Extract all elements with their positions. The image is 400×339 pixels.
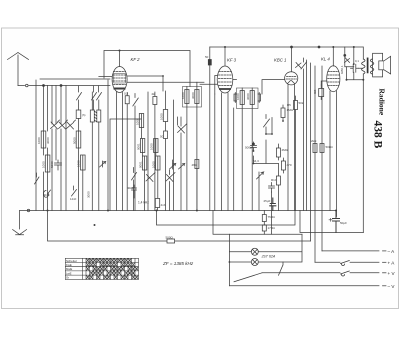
svg-text:1000: 1000 <box>159 113 163 120</box>
wire L1 bottom <box>44 148 48 211</box>
resistor R9 <box>281 158 285 173</box>
tube KBC1 electrodes <box>286 77 297 80</box>
lamp LP2 <box>251 259 258 266</box>
svg-text:ZF = 1385 kHz: ZF = 1385 kHz <box>162 261 194 266</box>
capacitor C4 <box>132 185 137 198</box>
svg-text:40nC: 40nC <box>43 193 50 197</box>
tube KF3 top lead <box>224 47 226 66</box>
wire L4 down <box>78 119 80 132</box>
svg-text:0,3: 0,3 <box>124 92 129 96</box>
svg-text:0001: 0001 <box>138 161 142 168</box>
wire KL4 bottom leads <box>330 91 337 217</box>
svg-text:JST 62A: JST 62A <box>261 255 276 259</box>
node KL4 top <box>344 54 346 56</box>
svg-text:3000: 3000 <box>246 93 250 100</box>
resistor R15 <box>262 225 266 234</box>
T2 coil secondary <box>195 90 199 104</box>
wire input box top <box>40 78 110 80</box>
wire L1 drop <box>43 86 45 132</box>
tube KF2 electrodes <box>113 72 126 85</box>
grid cap arrow KBC1 <box>296 63 302 69</box>
plus sign C10 <box>329 218 332 221</box>
switch S1a <box>77 86 82 110</box>
svg-text:5000: 5000 <box>50 161 54 168</box>
wire lamp1 <box>229 251 251 253</box>
wire bus D <box>300 211 363 233</box>
svg-text:500Ω: 500Ω <box>166 235 174 239</box>
lamp vertical <box>228 234 230 286</box>
coil L2 <box>45 155 50 172</box>
switch S4 <box>133 94 139 211</box>
svg-text:4nb: 4nb <box>161 203 166 207</box>
wire L5 bottom <box>79 148 83 211</box>
svg-text:170Ω: 170Ω <box>268 226 276 230</box>
wire KF2 grid top loop <box>104 51 190 87</box>
tube KF2 cathode <box>115 88 125 90</box>
wire -A row <box>322 250 379 252</box>
grid resistor GB box <box>319 85 324 100</box>
svg-text:1000: 1000 <box>37 137 41 144</box>
T3 coil secondary <box>250 91 254 105</box>
IF transformer T2 box <box>183 87 202 108</box>
tube KF2 grid box <box>114 74 126 84</box>
switch S1b <box>92 86 97 110</box>
lamp LP1 <box>251 248 258 255</box>
speaker horn <box>384 56 391 74</box>
switch S6 <box>264 115 270 135</box>
svg-text:– A: – A <box>388 249 396 254</box>
wire KF2 anode right <box>127 76 163 91</box>
output transformer secondary <box>370 59 373 74</box>
switch S9 <box>341 271 350 276</box>
antenna connector <box>26 84 29 87</box>
wire lamp2 <box>229 261 251 263</box>
svg-text:1000: 1000 <box>152 161 156 168</box>
tube KF3 envelope <box>217 66 233 93</box>
svg-text:50k: 50k <box>299 101 304 105</box>
bus ground <box>20 210 336 212</box>
electrolytic C10 <box>333 211 340 233</box>
switch S2 <box>35 173 40 184</box>
svg-text:R5: R5 <box>287 103 291 107</box>
wire transformer leads <box>362 47 364 80</box>
capacitor C6 <box>251 142 257 151</box>
svg-text:1000: 1000 <box>181 92 185 99</box>
resistor R12 <box>320 144 324 153</box>
switch S7 <box>301 58 307 211</box>
capacitor C7 <box>269 183 275 193</box>
output transformer primary <box>362 59 365 74</box>
coil L1 <box>41 131 46 148</box>
node on bus2 b <box>318 46 320 48</box>
svg-text:0001: 0001 <box>136 143 140 150</box>
capacitor C9 <box>351 64 359 72</box>
coil L4 body <box>76 110 81 119</box>
wire lamp right <box>258 234 302 262</box>
trimmer capacitor T6 <box>166 170 175 211</box>
wire +V row <box>262 272 379 274</box>
resistor R6 <box>281 105 285 121</box>
trimmer capacitor T4 <box>178 117 187 211</box>
switch S10 <box>279 262 284 275</box>
wire osc section <box>52 129 61 211</box>
wire dial lamp feed <box>48 211 311 242</box>
lamp LP1 cross <box>252 249 257 254</box>
bandfilter coils L11 L12 <box>142 156 160 170</box>
svg-text:500μF: 500μF <box>245 146 254 150</box>
wire audio coupling <box>266 118 272 235</box>
svg-text:54,3: 54,3 <box>253 159 259 163</box>
trimmer capacitor T9 <box>100 161 106 167</box>
svg-text:0,1: 0,1 <box>355 59 359 63</box>
svg-text:1000: 1000 <box>150 143 154 150</box>
wire snubber <box>345 47 354 67</box>
svg-text:1000: 1000 <box>77 160 81 167</box>
svg-text:Gr: Gr <box>66 276 69 280</box>
padder capacitor <box>55 160 62 170</box>
node C6 <box>253 143 255 145</box>
node on bus2 <box>291 46 293 48</box>
resistor R2 <box>153 92 157 211</box>
svg-text:KL 4: KL 4 <box>321 57 330 62</box>
svg-text:750Ω: 750Ω <box>268 215 276 219</box>
svg-text:2kΩ: 2kΩ <box>311 139 317 143</box>
speaker driver <box>379 61 384 70</box>
switch S3 <box>72 186 77 196</box>
wire mid drops <box>148 92 178 211</box>
coil L6 <box>81 155 86 170</box>
tube KF2 envelope <box>112 67 127 93</box>
svg-text:GB0,1: GB0,1 <box>340 65 344 74</box>
IF transformer T3 box <box>237 88 259 109</box>
svg-text:1000: 1000 <box>236 93 240 100</box>
T3 side capacitor left <box>234 93 237 103</box>
wire +A row <box>315 261 379 263</box>
svg-text:438 B: 438 B <box>372 121 384 149</box>
trimmer capacitor T7 <box>170 160 176 169</box>
svg-text:KBC 1: KBC 1 <box>274 58 287 63</box>
bandfilter coils L9 L10 <box>140 139 158 153</box>
wire KF3 grid left <box>215 76 217 95</box>
resistor R11 <box>313 144 317 153</box>
coil L5 <box>76 131 81 148</box>
svg-text:(h): (h) <box>82 113 85 117</box>
svg-text:14nF: 14nF <box>70 197 77 201</box>
node A1 <box>43 85 45 87</box>
node A2 <box>60 85 62 87</box>
wire speaker line down <box>362 80 364 233</box>
wire KF2 bottom leads <box>117 92 123 211</box>
wire L2 drop <box>47 86 49 132</box>
frequency table <box>65 258 138 279</box>
trimmer capacitor T8 <box>179 164 185 170</box>
wire sub bus <box>157 211 303 235</box>
tube KL4 electrodes <box>328 72 339 86</box>
wire input rail right <box>107 80 109 211</box>
resistor R1 <box>125 93 129 211</box>
trimmer capacitor T2 <box>59 120 68 129</box>
electrolytic C8 <box>270 198 276 211</box>
wire heater rails <box>307 60 323 262</box>
ground connector <box>27 209 29 211</box>
T2 coil primary <box>185 90 189 104</box>
switch S8 <box>341 261 350 266</box>
capacitor C5 block <box>208 60 211 66</box>
svg-text:46Ω: 46Ω <box>192 163 198 167</box>
resistor R7 <box>294 96 298 211</box>
ground <box>13 211 27 235</box>
svg-text:40nF: 40nF <box>127 186 134 190</box>
terminal arrow +V <box>383 272 387 274</box>
wire KF3 crossing <box>200 83 217 85</box>
wire mid drop <box>65 86 67 211</box>
trimmer capacitor T3 <box>67 120 76 129</box>
svg-text:GB: GB <box>313 90 317 94</box>
wire L3 drop <box>60 86 62 125</box>
wire T2 leads <box>187 82 197 210</box>
wire KF3 bottom leads <box>215 93 228 211</box>
svg-text:+ V: + V <box>388 271 396 276</box>
wire -V row <box>229 285 379 287</box>
svg-text:1000: 1000 <box>135 118 139 125</box>
svg-text:1000: 1000 <box>41 161 45 168</box>
wire KF2 left grid <box>99 76 112 78</box>
terminal arrow +A <box>383 261 387 263</box>
trimmer capacitor T5 <box>146 173 155 182</box>
terminal labels <box>388 249 396 289</box>
svg-text:+ A: + A <box>388 261 396 266</box>
wire tuning cap drop 1 <box>51 86 53 125</box>
coil L8 <box>163 91 167 131</box>
resistor R10 <box>276 164 280 211</box>
wire KBC1 left <box>262 80 285 94</box>
resistor R8 <box>276 144 280 160</box>
svg-text:5000: 5000 <box>72 137 76 144</box>
wire detector drop <box>233 108 235 211</box>
wire KBC1 bottom leads <box>288 85 295 211</box>
svg-text:3000: 3000 <box>46 137 50 144</box>
svg-text:50: 50 <box>205 55 209 59</box>
wire det <box>254 140 279 164</box>
T3 coil primary <box>240 91 244 105</box>
svg-text:3000: 3000 <box>86 191 90 198</box>
resistor R3 <box>164 131 168 211</box>
volume pot arrow <box>257 172 264 211</box>
wire osc right rails <box>92 92 99 211</box>
switch S1c <box>97 86 102 100</box>
svg-text:50: 50 <box>160 135 164 139</box>
svg-text:1MΩ: 1MΩ <box>287 108 294 112</box>
tube KF3 cathode <box>220 88 230 90</box>
connector K1 <box>43 190 50 197</box>
grid cap arrow KL4 <box>345 58 350 63</box>
wire antenna to input <box>18 85 110 87</box>
svg-text:R10: R10 <box>271 178 277 182</box>
wire KF2 screen right <box>127 81 204 83</box>
svg-text:KF 3: KF 3 <box>227 58 237 63</box>
wire top bus 2 <box>210 46 363 48</box>
resistor R5 <box>195 160 199 211</box>
wire tone branch <box>347 47 364 80</box>
wire KF3 anode right <box>233 79 237 81</box>
wire KBC1 top lead <box>291 47 293 72</box>
svg-text:2k: 2k <box>152 92 156 96</box>
svg-text:1,4 kHz: 1,4 kHz <box>138 201 149 205</box>
resistor R4 <box>155 199 159 211</box>
svg-text:– V: – V <box>388 284 396 289</box>
tube KL4 envelope <box>327 66 340 92</box>
wire C5 lead <box>209 47 211 211</box>
terminal arrow -V <box>383 285 387 287</box>
coil L7 <box>139 114 143 139</box>
speaker frame <box>373 53 383 77</box>
wire +V diagonal <box>234 273 262 282</box>
svg-text:KF 2: KF 2 <box>131 57 141 62</box>
resistor R14 <box>262 211 266 226</box>
wire AVC line <box>110 119 141 211</box>
terminal arrow -A <box>383 250 387 252</box>
svg-text:3000: 3000 <box>191 92 195 99</box>
svg-text:50μF: 50μF <box>340 221 347 225</box>
wire left rail <box>35 80 37 211</box>
tube label KF2 <box>131 57 331 63</box>
svg-text:50kΩ: 50kΩ <box>326 145 334 149</box>
osc transformer T-osc <box>90 110 101 122</box>
svg-text:470: 470 <box>287 163 292 167</box>
T3 side capacitor right <box>258 93 261 103</box>
tube KBC1 envelope <box>285 72 298 85</box>
svg-text:25μF: 25μF <box>264 199 271 203</box>
wire KL4 grid left <box>321 81 327 85</box>
wire tuning cap drop 2 <box>55 86 57 125</box>
resistor R13 <box>167 239 175 243</box>
tube KF3 electrodes <box>218 72 231 86</box>
svg-text:Radione: Radione <box>378 89 387 116</box>
switch S5 <box>132 168 137 211</box>
svg-text:4MΩ: 4MΩ <box>282 148 289 152</box>
component value labels <box>37 55 359 239</box>
tube KL4 top lead <box>332 47 334 66</box>
antenna <box>8 53 29 86</box>
tube KBC1 diodes <box>288 81 295 84</box>
output transformer core <box>367 58 369 72</box>
wire T3 leads <box>242 88 252 211</box>
table X cells <box>86 259 138 280</box>
trimmer capacitor T1 <box>51 120 60 129</box>
wire bandfilter drops <box>143 153 158 211</box>
lamp LP2 cross <box>252 260 257 265</box>
